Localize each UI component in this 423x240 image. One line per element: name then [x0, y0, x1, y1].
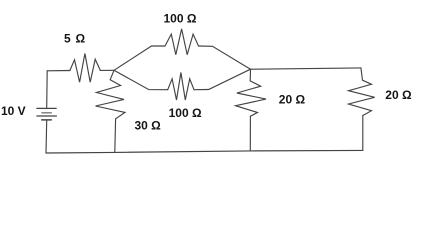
wire: left vertical lower — [45, 121, 48, 153]
wire: N1 lead down to 30 ohm — [110, 70, 114, 79]
wire: bottom rail — [46, 150, 363, 153]
wire: top right horizontal — [251, 68, 361, 69]
resistor 20 ohm middle — [236, 81, 266, 116]
wire: N1 diagonal down to bottom branch — [114, 70, 168, 89]
resistor 100 ohm bottom — [168, 73, 194, 101]
resistor 30 ohm — [96, 80, 126, 119]
wire: top-left horizontal — [47, 70, 70, 72]
wire: left vertical upper — [46, 71, 49, 108]
svg-text:100 Ω: 100 Ω — [169, 106, 202, 120]
wire: middle 20 ohm lead to bottom rail — [249, 116, 251, 151]
wire: 30 ohm lead to bottom rail — [114, 119, 117, 153]
svg-text:100 Ω: 100 Ω — [164, 12, 197, 26]
wire: 5 ohm to node N1 — [100, 69, 114, 71]
svg-text:20 Ω: 20 Ω — [385, 88, 412, 102]
wire: top branch diagonal to node N2 — [199, 46, 251, 69]
resistor 100 ohm top — [165, 29, 199, 55]
resistor 20 ohm right — [349, 80, 375, 115]
svg-text:10 V: 10 V — [1, 104, 26, 118]
wire: N2 lead down to middle 20 ohm — [249, 69, 251, 81]
wire: right vertical upper — [361, 68, 363, 80]
svg-text:30 Ω: 30 Ω — [135, 119, 162, 133]
svg-text:20 Ω: 20 Ω — [279, 93, 306, 107]
svg-text:5 Ω: 5 Ω — [64, 32, 86, 46]
resistor 5 ohm — [70, 54, 100, 83]
battery 10 V — [37, 108, 57, 120]
wire: right vertical lower — [362, 116, 364, 151]
wire: bottom branch diagonal to node N2 — [194, 69, 251, 90]
wire: N1 diagonal up to top branch — [114, 46, 165, 70]
